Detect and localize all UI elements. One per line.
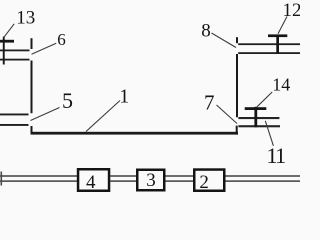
leader line to label 11 bbox=[265, 121, 273, 146]
bottom pipeline segment right bbox=[225, 175, 300, 176]
outlet pipe 8 lower line bbox=[238, 52, 300, 54]
bottom pipeline segment left bbox=[0, 175, 77, 176]
valve 13 stem bbox=[3, 37, 5, 65]
svg-text:8: 8 bbox=[201, 21, 211, 42]
leader line to label 14 bbox=[257, 92, 272, 107]
valve 14 stem bbox=[254, 107, 257, 128]
svg-text:7: 7 bbox=[204, 91, 215, 115]
discharge pipe 11 upper line bbox=[238, 117, 279, 119]
unit box 4 bbox=[78, 169, 109, 191]
unit box 2 bbox=[194, 170, 224, 191]
valve 12 stem bbox=[276, 35, 279, 54]
leader line to label 1 bbox=[86, 101, 120, 132]
leader line to label 12 bbox=[278, 17, 287, 34]
svg-text:13: 13 bbox=[16, 7, 35, 28]
svg-text:6: 6 bbox=[57, 30, 66, 49]
discharge pipe 11 lower line bbox=[238, 125, 280, 127]
vessel 1 left wall top tick bbox=[31, 38, 33, 49]
leader line to label 6 bbox=[32, 43, 57, 54]
inlet pipe 6 upper line bbox=[0, 50, 30, 52]
svg-text:1: 1 bbox=[119, 85, 129, 107]
valve 14 crossbar bbox=[245, 107, 267, 110]
leader line to label 13 bbox=[4, 24, 15, 38]
inlet pipe 6 lower line bbox=[0, 59, 30, 61]
outlet pipe 8 upper line bbox=[238, 43, 300, 45]
svg-text:14: 14 bbox=[272, 74, 290, 94]
leader line to label 8 bbox=[212, 33, 237, 48]
vessel 1 right wall bottom segment bbox=[236, 126, 238, 135]
valve 13 crossbar bbox=[0, 40, 14, 43]
svg-text:12: 12 bbox=[283, 0, 301, 21]
bottom pipeline segment between unit 4 and unit 3 bbox=[110, 175, 136, 176]
svg-text:3: 3 bbox=[146, 170, 156, 191]
vessel 1 bottom wall bbox=[31, 132, 239, 135]
bottom pipeline end flange bbox=[1, 172, 3, 186]
valve 12 crossbar bbox=[268, 34, 287, 37]
svg-text:4: 4 bbox=[86, 172, 96, 193]
bottom pipeline segment between unit 3 and unit 2 bbox=[165, 175, 193, 176]
unit box 3 bbox=[137, 170, 164, 191]
drain pipe 5 upper line bbox=[0, 114, 29, 116]
leader line to label 7 bbox=[217, 105, 238, 124]
svg-text:11: 11 bbox=[267, 143, 286, 168]
vessel 1 right wall middle segment bbox=[236, 54, 238, 117]
vessel 1 right wall top tick bbox=[236, 37, 238, 43]
vessel 1 left wall middle segment bbox=[31, 61, 33, 114]
svg-text:5: 5 bbox=[62, 88, 73, 113]
drain pipe 5 lower line bbox=[0, 124, 29, 126]
svg-text:2: 2 bbox=[199, 172, 209, 193]
leader line to label 5 bbox=[31, 108, 60, 121]
vessel 1 left wall bottom segment bbox=[31, 126, 33, 135]
